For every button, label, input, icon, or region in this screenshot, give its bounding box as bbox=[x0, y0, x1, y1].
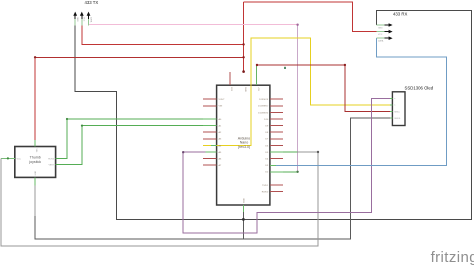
svg-text:s: s bbox=[394, 105, 395, 107]
svg-text:SMCL: SMCL bbox=[394, 111, 401, 113]
svg-text:VERT: VERT bbox=[48, 165, 54, 167]
svg-text:(rev3.0): (rev3.0) bbox=[238, 145, 250, 149]
svg-text:+5V: +5V bbox=[257, 87, 259, 91]
svg-text:433 TX: 433 TX bbox=[85, 0, 99, 5]
svg-text:SMOS: SMOS bbox=[394, 118, 401, 120]
svg-text:s: s bbox=[394, 98, 395, 100]
svg-text:VOUT: VOUT bbox=[219, 99, 226, 101]
svg-text:HORZ: HORZ bbox=[48, 158, 55, 160]
svg-text:DATA: DATA bbox=[89, 17, 92, 23]
svg-text:VCC: VCC bbox=[83, 17, 85, 22]
svg-text:DATA: DATA bbox=[378, 40, 384, 43]
svg-text:GND: GND bbox=[35, 170, 37, 175]
svg-text:fritzing: fritzing bbox=[431, 249, 474, 265]
svg-text:GND: GND bbox=[378, 28, 383, 30]
svg-text:TX/D1: TX/D1 bbox=[262, 185, 269, 187]
svg-text:D13/SCK: D13/SCK bbox=[259, 99, 269, 101]
svg-text:RX/D0: RX/D0 bbox=[262, 192, 269, 194]
svg-text:joystick: joystick bbox=[28, 160, 41, 164]
svg-text:GND: GND bbox=[244, 87, 246, 92]
svg-text:VIN: VIN bbox=[219, 106, 223, 108]
svg-text:SSD1306 Oled: SSD1306 Oled bbox=[405, 85, 434, 90]
svg-text:Thumb: Thumb bbox=[30, 156, 41, 160]
svg-text:D12/MISO: D12/MISO bbox=[258, 106, 269, 108]
svg-text:VCC: VCC bbox=[17, 158, 22, 160]
svg-text:D11/MOSI: D11/MOSI bbox=[258, 112, 268, 114]
svg-text:GND: GND bbox=[76, 17, 78, 22]
svg-text:VCC: VCC bbox=[378, 34, 383, 36]
svg-text:GND: GND bbox=[244, 198, 246, 203]
svg-text:433 RX: 433 RX bbox=[393, 12, 407, 17]
